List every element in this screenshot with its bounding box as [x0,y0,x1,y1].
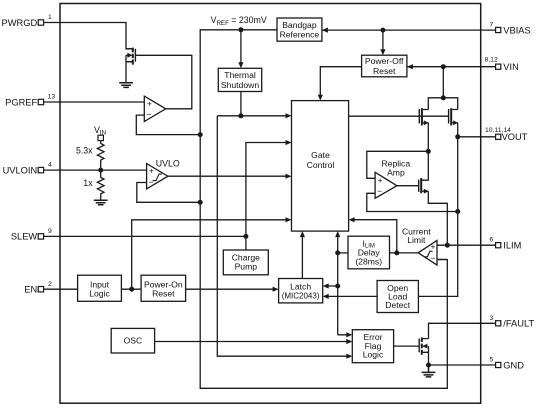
node Thermal Shutdown output tee [238,113,243,118]
svg-text:Power-Off: Power-Off [365,56,404,66]
transistor Q2 (sense pass N-FET) [419,108,428,125]
arrowhead into Gate Control left (thermal) [286,113,292,118]
wire replica node to U3 + input (over the top) [367,151,429,178]
wire Thermal Shutdown output to Gate Control left (node at x=241) [217,92,285,116]
wire VBIAS line from pin to Bandgap Reference (arrow) with tap to Power-Off Reset [322,29,496,31]
box ILIM Delay (28ms) [348,236,390,269]
box Error Flag Logic [352,330,393,363]
wire Power-Off Reset output to Gate Control top [320,67,361,95]
svg-text:SLEW: SLEW [11,232,38,242]
arrowhead into Latch right (upper) [323,283,329,288]
op-amp U1 (PWRGD comparator) [144,96,165,121]
transistor Q3 (main pass N-FET) [449,108,458,125]
node SLEW on charge pump line [243,234,248,239]
wire PGREF to U1 + input [60,101,144,103]
svg-text:7: 7 [490,22,494,29]
wire Power-On Reset output to Latch left [186,288,273,290]
node ILIM tee [445,243,450,248]
wire OSC output to Error Flag Logic [155,341,347,343]
svg-text:Latch: Latch [290,281,311,291]
wire EN branch up to Gate Control left [132,220,286,289]
arrowhead into Latch right (lower) [323,294,329,299]
svg-text:UVLOIN: UVLOIN [3,165,38,175]
node pass FET drain tee [441,95,446,100]
IC boundary box [60,4,481,404]
svg-text:VIN: VIN [503,62,519,72]
resistor R1 (5.3x) [97,141,104,171]
op-amp U2 (UVLO comparator) [147,164,168,189]
arrowhead into Gate Control top [318,95,323,101]
svg-text:PWRGD: PWRGD [2,18,38,28]
svg-text:UVLO: UVLO [156,158,180,168]
node UVLO feedback on VREF rail [198,200,203,205]
svg-text:Bandgap: Bandgap [282,20,317,30]
wire pass FET drain tee [428,98,457,110]
svg-text:4: 4 [48,162,52,169]
wire VBIAS node down into Power-Off Reset [382,30,384,49]
svg-text:ILIM: ILIM [503,241,521,251]
pin VIN terminal [496,64,501,69]
svg-text:−: − [149,177,154,187]
node replica (sense) [426,149,431,154]
ground for divider [94,200,108,205]
svg-text:−: − [431,253,436,263]
svg-text:PGREF: PGREF [5,97,37,107]
svg-text:3: 3 [490,315,494,322]
svg-text:VBIAS: VBIAS [503,25,530,35]
arrowhead into Gate Control bottom (from Latch) [300,231,305,237]
ground for Q5 [422,365,436,377]
svg-text:Shutdown: Shutdown [221,80,259,90]
wire Q1 source to ground [126,55,132,82]
box Power-Off Reset [362,55,407,77]
svg-text:5: 5 [490,357,494,364]
box Power-On Reset [141,275,186,301]
svg-text:1: 1 [48,14,52,21]
wire VREF rail: Bandgap left side, down left side, along bottom, up to Current Limit - input [200,30,447,389]
arrowhead into Latch left [273,287,279,292]
node Current Limit output tee [394,250,399,255]
pin GND terminal [496,362,501,367]
wire shared gate line from Gate Control to Q2/Q3 gates [349,115,449,117]
svg-text:Logic: Logic [363,350,384,360]
wire SLEW to charge-pump node [60,235,246,237]
svg-text:−: − [146,110,151,120]
box Bandgap Reference [277,18,322,41]
wire SLEW pin lead [44,235,60,237]
wire UVLOIN pin lead [44,169,60,171]
svg-text:Control: Control [307,160,335,170]
wire UVLO - input feedback to VREF rail [137,183,200,203]
wire EN pin lead [44,288,60,290]
transistor Q1 (PWRGD open-drain N-FET) [126,48,135,65]
pin VBIAS terminal [496,27,501,32]
ground for Q1 [119,83,133,88]
wire tee up into Gate Control bottom [337,237,339,253]
arrowhead into Power-Off Reset top [380,49,385,55]
wire VOUT sense down to Open Load Detect input [418,137,457,297]
svg-text:Reset: Reset [373,66,396,76]
svg-text:(MIC2043): (MIC2043) [282,291,320,300]
svg-text:+: + [378,175,383,185]
svg-text:Detect: Detect [385,300,410,310]
pin VOUT terminal [496,134,501,139]
node ILIM delay output tee [335,250,340,255]
svg-text:6: 6 [490,237,494,244]
svg-text:Limit: Limit [407,235,426,245]
node Q5 source / GND [426,363,431,368]
resistor R2 (1x) [97,170,104,200]
svg-text:Reference: Reference [280,30,320,40]
wire PWRGD pin lead [44,22,60,24]
wire UVLOIN to UVLO + input [60,169,147,171]
wire node into ILIM Delay right side [390,252,397,254]
wire Open Load Detect output to Latch right (lower) [328,295,377,297]
box Latch (MIC2043) [279,279,323,303]
arrowhead into Error Flag Logic left (top) [346,332,352,337]
wire ILIM Delay output left to tee [338,252,348,254]
arrowhead into Power-Off Reset right side (VIN) [407,64,413,69]
wire Thermal branch down to Error Flag Logic [217,116,346,356]
wire U4 output to node, up to Gate Control right [354,220,418,253]
pin UVLOIN terminal [38,167,43,172]
pin PGREF terminal [38,99,43,104]
op-amp U4 (Current Limit comparator, points left) [418,241,437,266]
wire GND line from Q5 source node to pin [429,364,496,366]
box Gate Control [292,101,349,232]
node U1 feedback on VREF rail [198,132,203,137]
svg-text:OSC: OSC [124,336,143,346]
svg-text:Logic: Logic [89,289,110,299]
wire Latch top to Gate Control bottom [301,237,303,279]
wire U3 - input feedback loop to VOUT sense line [367,193,458,211]
wire /FAULT line from pin to Q5 drain [429,323,496,338]
wire Input Logic to Power-On Reset with branch node [121,288,141,290]
svg-text:Pump: Pump [235,261,258,271]
svg-text:1x: 1x [83,178,93,188]
svg-text:+: + [149,165,154,175]
wire PWRGD to Q1 drain [60,23,132,49]
transistor Q4 (replica N-FET) [419,178,429,194]
arrowhead into Bandgap Reference right side [322,28,328,33]
svg-text:Gate: Gate [311,150,330,160]
svg-text:EN: EN [24,285,37,295]
wire PGREF pin lead [44,101,60,103]
svg-text:+: + [147,98,152,108]
svg-text:5.3x: 5.3x [76,145,93,155]
pin /FAULT terminal [496,321,501,326]
wire Q3 source down to VOUT line [457,123,459,137]
wire Q4 source down to ILIM line [428,191,447,245]
pin SLEW terminal [38,234,43,239]
svg-text:(28ms): (28ms) [355,257,382,267]
label Current Limit [402,226,431,245]
arrowhead into Gate Control right side [349,217,355,222]
svg-text:Amp: Amp [387,168,405,178]
wire U4 - input to VREF return rail [437,259,447,261]
wire EN to Input Logic [60,288,78,290]
wire Q1 gate loop to PGREF comparator output [136,55,192,109]
wire replica node down to Q4 drain [422,151,428,180]
svg-text:/FAULT: /FAULT [503,319,534,329]
svg-text:GND: GND [503,360,524,370]
node EN branch [129,287,134,292]
svg-text:−: − [377,186,382,196]
svg-text:Thermal: Thermal [224,70,256,80]
wire tee down to Latch right input and Error Flag Logic top input [328,253,346,335]
box Open Load Detect [377,281,418,313]
pin ILIM terminal [496,243,501,248]
svg-text:2: 2 [48,281,52,288]
svg-text:10,11,14: 10,11,14 [485,127,511,134]
op-amp U3 (Replica Amp) [375,172,397,198]
svg-text:9: 9 [48,228,52,235]
node replica feedback on VOUT sense line [455,209,460,214]
box Input Logic [78,275,122,301]
node UVLOIN divider tap [98,168,103,173]
wire Charge Pump output up to Gate Control left [246,143,286,251]
node latch branch [335,284,340,289]
transistor Q5 (/FAULT open-drain N-FET) [419,338,428,366]
wire VOUT line from FET source node to pin [458,136,496,138]
wire U1 - input feedback to VREF rail [136,115,200,135]
pin PWRGD terminal [38,20,43,25]
node VIN tap [441,64,446,69]
wire Error Flag Logic output to Q5 gate [394,345,420,347]
arrowhead into Gate Control left (EN) [286,217,292,222]
wire ILIM line from Current Limit + input to pin [437,244,496,246]
svg-text:+: + [431,242,436,252]
wire VIN line from pin to Power-Off Reset (arrow) with tap down [407,66,496,68]
arrowhead into Gate Control bottom (from ILIM delay tee) [335,231,340,237]
wire Q2 source down to replica node [427,123,429,152]
node VBIAS to Power-Off Reset branch [380,28,385,33]
box OSC [111,328,154,353]
wire VIN down to pass FET drains [442,67,444,98]
terminal VIN of divider [98,135,103,140]
box Charge Pump [223,250,268,275]
svg-text:Reset: Reset [152,289,175,299]
svg-text:13: 13 [48,94,56,101]
arrowhead into Gate Control left (charge pump) [286,140,292,145]
node VREF to Thermal Shutdown branch [238,27,243,32]
svg-text:8,12: 8,12 [485,57,498,64]
node VOUT [455,134,460,139]
wire U3 output to Q4 gate [397,185,419,187]
arrowhead into Gate Control left (UVLO) [286,174,292,179]
wire VREF node down into Thermal Shutdown [240,30,242,63]
label Replica Amp [381,159,410,178]
arrowhead into Error Flag Logic left (OSC) [346,339,352,344]
arrowhead into Thermal Shutdown top [238,62,243,68]
arrowhead into Error Flag Logic left (thermal) [346,354,352,359]
pin EN terminal [38,287,43,292]
wire UVLO output to Gate Control left [168,175,286,177]
box Thermal Shutdown [218,68,261,91]
